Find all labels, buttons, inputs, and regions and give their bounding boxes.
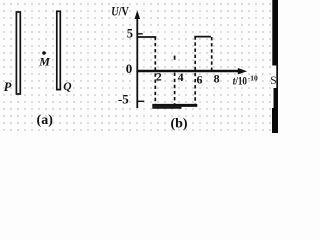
- svg-text:4: 4: [178, 70, 184, 84]
- svg-text:M: M: [38, 55, 50, 69]
- svg-text:U/V: U/V: [111, 3, 129, 18]
- t axis line: [136, 70, 240, 73]
- waveform +5 segment t=6..8: [194, 36, 211, 38]
- tick -5: [137, 100, 144, 102]
- point M dot: [42, 51, 46, 55]
- dashed vertical at t=6: [194, 36, 196, 104]
- plate P (left capacitor plate): [16, 12, 20, 94]
- scan artifact: right edge black band (upper): [272, 0, 278, 66]
- dashed vertical at t=4 (upper dash): [174, 56, 176, 60]
- svg-text:6: 6: [197, 73, 203, 87]
- waveform -5 segment t=2..6: [152, 104, 197, 107]
- dashed vertical at t=8: [211, 37, 213, 70]
- dashed vertical at t=4: [174, 73, 176, 104]
- scan artifact: right edge sliver (middle): [276, 66, 278, 89]
- scan artifact: right edge black band (bottom corner): [272, 108, 278, 133]
- waveform +5 segment t=0..2: [137, 36, 156, 38]
- tick +5: [137, 33, 142, 35]
- svg-text:2: 2: [156, 70, 162, 84]
- t axis arrowhead: [238, 68, 247, 74]
- scan artifact: right edge black band (lower): [274, 88, 279, 133]
- svg-text:P: P: [4, 80, 12, 94]
- svg-text:8: 8: [214, 72, 220, 86]
- svg-text:0: 0: [126, 61, 133, 76]
- svg-text:S: S: [270, 75, 276, 87]
- waveform -5 smudge: [152, 107, 181, 109]
- svg-text:(b): (b): [170, 116, 187, 131]
- svg-text:-5: -5: [118, 91, 129, 106]
- svg-text:-10: -10: [248, 74, 258, 83]
- dashed vertical at t=2: [154, 37, 156, 104]
- y axis arrowhead: [135, 11, 141, 20]
- plate Q (right capacitor plate): [57, 11, 61, 89]
- svg-text:t/10: t/10: [233, 74, 247, 88]
- svg-text:(a): (a): [37, 113, 54, 128]
- svg-text:5: 5: [127, 26, 133, 40]
- svg-text:Q: Q: [63, 81, 71, 93]
- y axis line: [136, 13, 138, 108]
- paper background: [0, 0, 278, 133]
